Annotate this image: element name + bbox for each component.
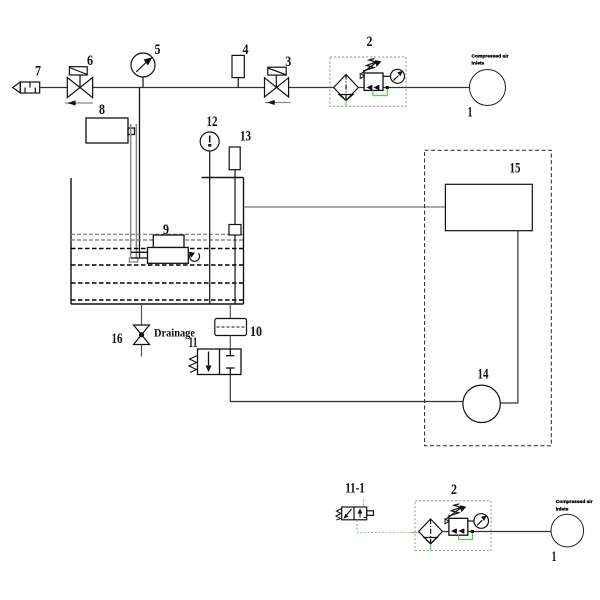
relief triangle (bottom regulator) — [445, 519, 449, 524]
pipe 10 to valve 11 — [229, 336, 231, 350]
svg-text:7: 7 — [35, 64, 41, 80]
wire 15 to gauge 14 — [500, 231, 518, 403]
blocked ports valve 11 right cell — [226, 349, 235, 375]
filter (bottom unit 2) — [419, 519, 443, 544]
svg-text:5: 5 — [155, 42, 161, 58]
arrow left cell 11-1 — [345, 509, 352, 518]
valve 3 — [265, 67, 289, 97]
float box 13 — [229, 225, 241, 236]
tank — [71, 178, 244, 305]
svg-text:4: 4 — [243, 42, 249, 58]
svg-text:15: 15 — [510, 161, 521, 177]
gauge 12 — [200, 132, 219, 151]
dashed enclosure 15 — [425, 150, 552, 445]
green pilot lines 11-1 — [357, 500, 419, 533]
silencer 7 — [13, 82, 40, 93]
svg-text:6: 6 — [87, 53, 93, 69]
valve 11 — [198, 349, 242, 375]
arrow under valve 6 — [65, 100, 93, 105]
wire valve 11 to gauge 14 — [230, 375, 463, 402]
motor 8 — [86, 118, 135, 143]
spring arrow (bottom regulator) — [446, 504, 462, 519]
svg-text:2: 2 — [367, 34, 373, 50]
FRL unit 2 (bottom): dashed enclosure — [415, 501, 491, 551]
level sensor 13 — [229, 147, 240, 170]
svg-text:1: 1 — [468, 105, 473, 121]
test connection 4 — [232, 55, 244, 87]
pipe down to pump — [139, 88, 141, 259]
green drain (top filter) — [345, 101, 347, 107]
filter (top unit 2) — [334, 75, 359, 101]
svg-text:Compressed air: Compressed air — [556, 499, 593, 505]
liquid level dashed lines — [71, 234, 244, 240]
pipe 13 — [234, 170, 236, 225]
gauge 5 — [131, 53, 155, 88]
spring arrow (top regulator) — [362, 59, 378, 74]
valve 11-1 — [342, 507, 374, 520]
svg-text:3: 3 — [285, 54, 291, 70]
svg-text:10: 10 — [250, 324, 262, 340]
controller box 15 — [445, 184, 532, 230]
arrow right cell 11-1 — [359, 511, 361, 518]
relief triangle (top regulator) — [360, 74, 364, 79]
svg-text:inlets: inlets — [556, 507, 569, 513]
rod from motor 8 — [131, 124, 137, 258]
wires bottom unit — [443, 531, 552, 533]
wire tank to controller 15 — [244, 206, 446, 208]
green feedback loop (bottom unit 2) — [459, 532, 473, 540]
arrow in valve 11 left cell — [208, 352, 210, 369]
FRL unit 2 (top): dashed enclosure — [330, 57, 406, 106]
green feedback loop (top unit 2) — [373, 89, 387, 96]
svg-text:11-1: 11-1 — [345, 480, 365, 496]
drain valve 16 — [141, 304, 143, 325]
svg-text:Drainage: Drainage — [154, 328, 195, 340]
svg-text:12: 12 — [207, 114, 218, 130]
svg-text:13: 13 — [240, 129, 251, 145]
spring valve 11-1 — [336, 509, 342, 521]
green drain (bottom filter) — [430, 544, 432, 551]
wire main line — [40, 87, 470, 89]
gauge (bottom unit 2) — [468, 514, 489, 529]
svg-text:2: 2 — [451, 482, 457, 498]
svg-text:16: 16 — [112, 331, 123, 347]
svg-text:Compressed air: Compressed air — [472, 54, 509, 60]
svg-text:inlets: inlets — [472, 61, 485, 67]
svg-text:14: 14 — [478, 367, 489, 383]
gauge (top unit 2) — [383, 69, 405, 83]
arrow under valve 3 — [265, 100, 291, 105]
regulator (top unit 2) — [364, 73, 383, 90]
pump rotation arrow — [190, 253, 200, 261]
svg-text:9: 9 — [163, 222, 169, 238]
filter 10 — [215, 319, 247, 336]
pipe tank outlet to filter 10 — [229, 304, 231, 319]
svg-text:8: 8 — [99, 102, 105, 118]
pipe gauge 12 to tank bottom — [209, 151, 211, 304]
gauge 14 — [463, 385, 500, 422]
compressed air inlet 1 (bottom) — [551, 514, 584, 547]
svg-text:1: 1 — [552, 549, 557, 565]
compressed air inlet 1 (top) — [470, 70, 506, 106]
spring valve 11 — [189, 356, 198, 373]
pump 9 — [131, 235, 188, 263]
regulator (bottom unit 2) — [449, 518, 468, 535]
valve 6 — [67, 67, 92, 98]
